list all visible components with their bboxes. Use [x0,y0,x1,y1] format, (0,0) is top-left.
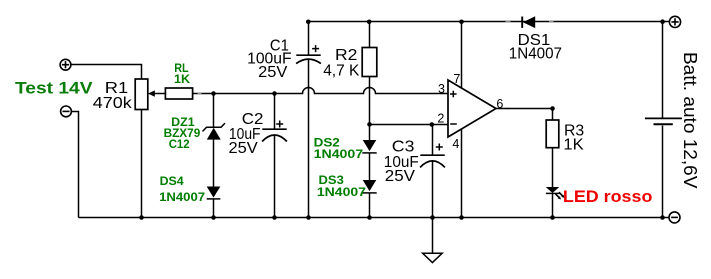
capacitor C1 [296,22,321,218]
terminal - (test input negative) [61,106,72,117]
wire (output) [496,108,553,110]
capacitor C2 [262,94,287,218]
LED DL1 [546,187,565,200]
node RL/C2 [272,91,277,96]
wire [369,193,371,218]
svg-text:1N4007: 1N4007 [317,185,366,199]
node top rail / pin7 [459,20,464,25]
wire [71,65,142,80]
ground [423,253,443,262]
svg-text:7: 7 [453,72,460,86]
diode DS2 [362,140,376,153]
wire (ground stem) [432,218,434,254]
node ground rail / C1 [306,215,311,220]
wire (to - terminal) [663,217,670,219]
svg-text:1K: 1K [174,72,190,86]
wire [141,110,143,218]
svg-text:25V: 25V [258,64,288,81]
wire (battery top lead) [662,22,664,118]
terminal - (battery negative) [669,212,680,223]
wire (battery bottom lead) [662,126,664,218]
svg-text:1N4007: 1N4007 [509,45,562,62]
svg-text:25V: 25V [385,168,416,185]
battery B1 [645,118,682,124]
node ground rail / LED [550,215,555,220]
wire [213,199,215,218]
wire [71,112,78,218]
resistor RL [165,88,192,99]
node C3 top [430,122,435,127]
node ground rail / C2 [272,215,277,220]
node top rail / C1 [306,20,311,25]
diode DS1 [506,16,554,28]
svg-text:470k: 470k [93,95,133,112]
diode DS4 [207,187,221,199]
capacitor C3 [420,125,445,218]
terminal + (test input positive) [60,59,71,70]
wire (pin 7 to top rail) [461,22,463,89]
svg-text:C3: C3 [392,139,415,156]
node output [550,106,555,111]
wire [213,140,215,187]
wire (ground rail) [79,217,663,219]
wire (to + terminal) [663,21,670,23]
svg-text:3: 3 [438,82,445,96]
node ground rail / R1 [139,215,144,220]
node ground rail / C3 [430,215,435,220]
potentiometer R1 [135,79,165,110]
wire (top rail) [309,21,663,23]
svg-text:Test 14V: Test 14V [15,79,93,98]
node RL/DZ1 [211,91,216,96]
terminal + (battery positive) [669,16,680,27]
svg-text:2: 2 [437,111,444,125]
node ground rail / pin4 [459,215,464,220]
node ground rail / DS3 [367,215,372,220]
wire (gray pin marks) [198,94,510,109]
svg-text:1N4007: 1N4007 [314,147,364,161]
svg-text:1N4007: 1N4007 [159,190,205,204]
node ground rail / DS4 [211,215,216,220]
node top rail / battery [660,19,665,24]
resistor R3 [546,109,559,188]
svg-text:4,7 K: 4,7 K [323,62,360,79]
wire (wiper to op-amp + input, with hops) [193,88,448,94]
svg-text:1K: 1K [563,137,584,154]
svg-text:DS4: DS4 [160,174,184,188]
node R2/DS2 [367,122,372,127]
op-amp U1 [448,80,496,137]
wire [369,125,371,141]
diode DS3 [362,180,376,193]
zener diode DZ1 [203,123,226,140]
resistor R2 [362,22,377,125]
wire (inverting input rail) [370,124,449,126]
svg-text:4: 4 [452,137,459,151]
wire [552,193,554,217]
wire [369,153,371,180]
wire (pin 4 to ground rail) [461,129,463,218]
node ground rail / battery [660,215,665,220]
svg-text:25V: 25V [229,140,259,157]
node top rail / R2 [367,20,372,25]
svg-text:Batt. auto 12,6V: Batt. auto 12,6V [680,52,701,189]
svg-text:C12: C12 [169,137,190,151]
svg-text:LED rosso: LED rosso [563,187,653,206]
wire [213,94,215,128]
